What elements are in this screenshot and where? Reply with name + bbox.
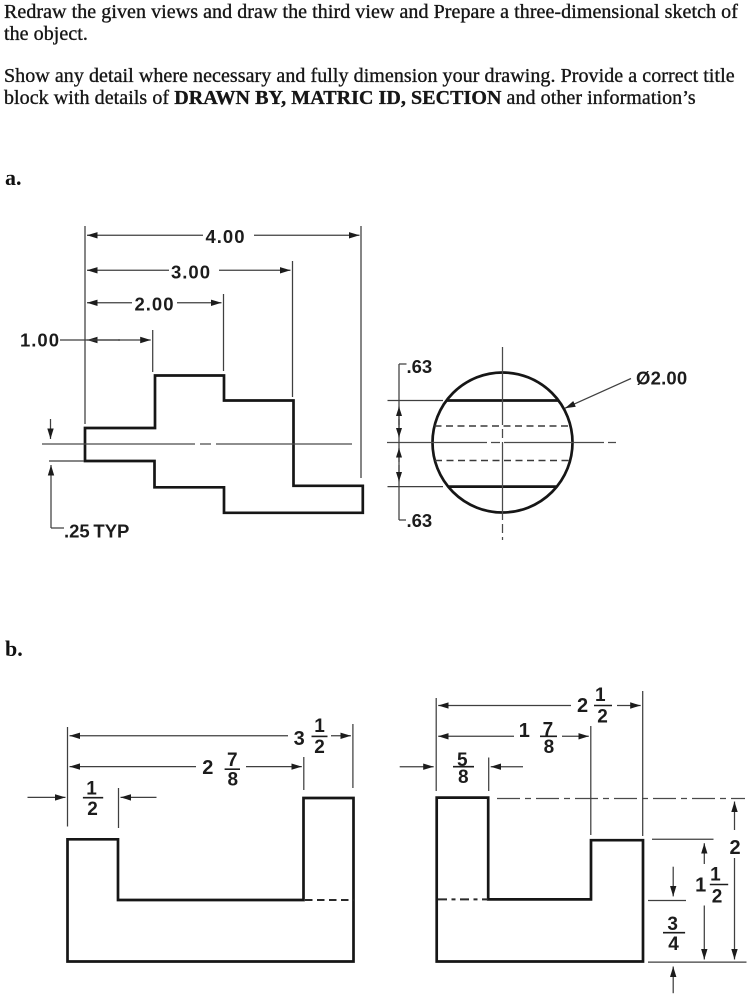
- svg-text:.63: .63: [407, 510, 433, 531]
- svg-text:2: 2: [712, 887, 723, 908]
- svg-text:2: 2: [729, 837, 740, 859]
- svg-text:2.00: 2.00: [134, 293, 174, 314]
- svg-text:8: 8: [228, 769, 239, 790]
- svg-text:2: 2: [202, 757, 213, 779]
- svg-text:.25 TYP: .25 TYP: [64, 521, 129, 542]
- svg-text:1: 1: [695, 875, 706, 897]
- svg-text:4.00: 4.00: [205, 226, 245, 247]
- svg-text:.63: .63: [407, 356, 433, 377]
- svg-text:1: 1: [314, 716, 325, 737]
- svg-text:3: 3: [667, 914, 678, 935]
- svg-text:2: 2: [597, 706, 608, 727]
- svg-text:1.00: 1.00: [20, 330, 60, 351]
- svg-text:1: 1: [595, 685, 606, 706]
- svg-text:Ø2.00: Ø2.00: [636, 368, 687, 389]
- svg-text:2: 2: [577, 695, 588, 717]
- svg-text:2: 2: [314, 737, 325, 758]
- svg-text:1: 1: [519, 720, 530, 742]
- svg-text:1: 1: [86, 779, 97, 800]
- svg-text:2: 2: [87, 799, 98, 820]
- svg-text:1: 1: [710, 865, 721, 886]
- svg-text:4: 4: [668, 934, 679, 955]
- svg-text:3: 3: [294, 728, 305, 750]
- svg-text:7: 7: [227, 750, 238, 771]
- svg-text:8: 8: [544, 737, 555, 758]
- svg-text:3.00: 3.00: [171, 261, 211, 282]
- svg-text:8: 8: [458, 767, 469, 788]
